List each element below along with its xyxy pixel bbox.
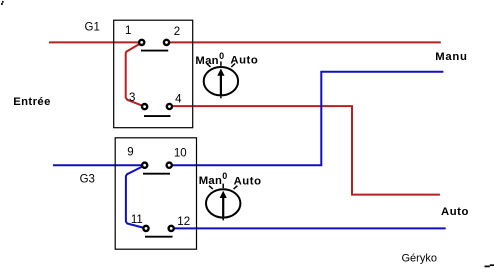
wire red jumper contact1 to contact3 <box>126 43 145 107</box>
svg-text:1: 1 <box>125 25 131 37</box>
svg-text:12: 12 <box>177 216 190 228</box>
svg-text:Man: Man <box>199 175 223 187</box>
svg-text:0: 0 <box>219 51 224 61</box>
contact 3 <box>142 104 147 109</box>
svg-text:Auto: Auto <box>234 175 262 187</box>
switch bar contacts 3-4 <box>144 115 171 117</box>
switch block G1 <box>114 20 193 128</box>
stray mark bottom-right upper dash <box>490 264 494 266</box>
selector S1 tick top <box>220 61 222 66</box>
selector S2 tick top <box>222 184 224 189</box>
svg-text:Man: Man <box>195 55 219 67</box>
svg-text:10: 10 <box>174 147 187 159</box>
wire blue G3 input <box>53 164 145 166</box>
selector S1 tick top-left <box>207 64 211 67</box>
svg-text:3: 3 <box>129 92 135 104</box>
svg-text:G1: G1 <box>85 22 100 34</box>
contact 2 <box>164 40 169 45</box>
svg-text:11: 11 <box>131 214 143 226</box>
contact 9 <box>142 163 147 168</box>
wire red Entrée input <box>49 41 142 43</box>
contact 1 <box>139 40 144 45</box>
selector S2 body <box>206 189 240 217</box>
stray mark bottom-right lower dash <box>485 265 490 267</box>
svg-text:4: 4 <box>175 93 182 105</box>
stray mark top-left <box>2 1 4 3</box>
svg-text:G3: G3 <box>80 174 95 186</box>
wire blue contact12 to Auto pair <box>171 227 446 229</box>
selector S2 tick bottom <box>222 218 224 220</box>
svg-text:Manu: Manu <box>435 51 467 63</box>
switch bar contacts 11-12 <box>145 236 173 238</box>
switch bar contacts 1-2 <box>141 50 168 52</box>
svg-text:Entrée: Entrée <box>13 96 51 108</box>
wire blue jumper contact9 to contact11 <box>126 165 146 228</box>
svg-text:9: 9 <box>127 146 133 158</box>
svg-text:2: 2 <box>174 26 180 38</box>
selector S1 body <box>204 67 238 95</box>
contact 10 <box>167 163 172 168</box>
switch block G3 <box>115 138 196 249</box>
svg-text:Auto: Auto <box>441 206 469 218</box>
contact 12 <box>169 226 174 231</box>
selector S1 arrow <box>220 75 222 95</box>
contact 11 <box>143 226 148 231</box>
selector S1 tick bottom <box>220 96 222 98</box>
wire red contact4 to Auto <box>169 106 440 195</box>
selector S2 tick top-right <box>234 186 238 189</box>
svg-text:0: 0 <box>222 171 227 181</box>
selector S1 tick top-right <box>231 64 235 67</box>
wire blue contact10 up to Manu pair <box>169 72 443 166</box>
wire red contact2 to Manu <box>167 41 441 43</box>
svg-text:Géryko: Géryko <box>402 252 437 264</box>
contact 4 <box>167 104 172 109</box>
selector S2 tick top-left <box>209 186 213 189</box>
switch bar contacts 9-10 <box>143 173 170 175</box>
selector S2 arrow <box>222 197 224 217</box>
